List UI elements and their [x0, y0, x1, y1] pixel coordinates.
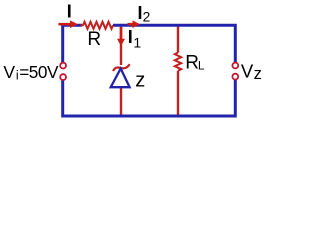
- zener diode Z cathode bar (tilde): [113, 64, 130, 71]
- svg-text:2: 2: [143, 10, 151, 25]
- current arrow I1: [117, 27, 125, 46]
- wire top right section with top-right corner and right upper vertical: [113, 25, 235, 62]
- terminal circle left top: [60, 63, 66, 69]
- svg-text:V: V: [3, 62, 15, 82]
- current arrow I2: [128, 20, 141, 28]
- svg-text:1: 1: [133, 35, 141, 51]
- resistor RL branch upper wire: [177, 24, 179, 53]
- svg-text:R: R: [87, 29, 101, 50]
- current arrow I: [59, 20, 79, 28]
- resistor R zigzag: [81, 22, 114, 29]
- terminal circle right bottom: [232, 74, 238, 80]
- terminal circle right top: [232, 63, 238, 69]
- svg-text:V: V: [241, 61, 254, 82]
- svg-text:L: L: [198, 59, 205, 73]
- svg-text:R: R: [185, 52, 199, 73]
- terminal circle left bottom: [60, 74, 66, 80]
- svg-text:I: I: [67, 2, 72, 22]
- wire bottom loop: left lower vertical, bottom horizontal, right lower vertical: [63, 80, 236, 116]
- svg-text:I: I: [128, 27, 133, 47]
- wire top-left corner and left upper vertical: [63, 25, 82, 62]
- resistor RL branch lower wire: [177, 71, 179, 115]
- wire zener branch lower: [120, 87, 122, 116]
- svg-text:z: z: [135, 69, 145, 91]
- svg-text:z: z: [254, 65, 262, 83]
- wire zener branch upper: [120, 24, 122, 65]
- resistor RL zigzag: [175, 53, 181, 71]
- zener diode Z triangle: [111, 69, 130, 88]
- svg-text:=50V: =50V: [19, 62, 59, 82]
